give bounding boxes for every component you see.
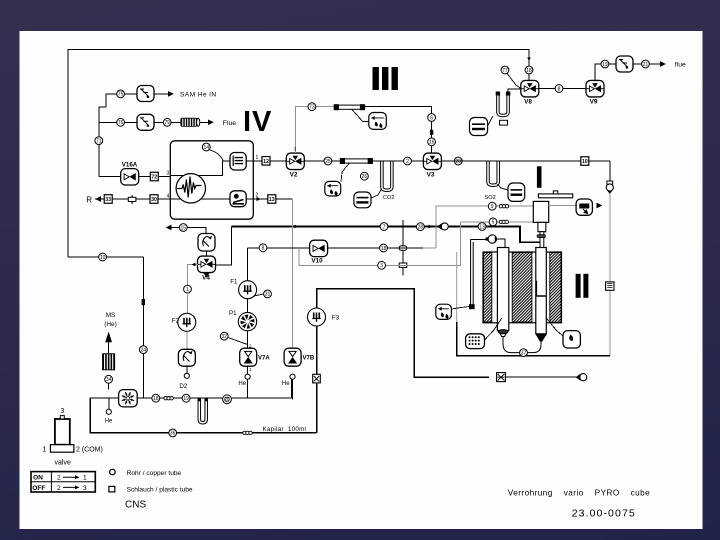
node 31 (264, 290, 272, 298)
svg-text:18: 18 (381, 246, 387, 252)
wire He distribution line (137, 397, 292, 399)
node 15 (179, 224, 187, 232)
wire sample line (232, 226, 540, 242)
wire V4 right link (215, 226, 232, 264)
node 13a (478, 223, 486, 231)
wire He to V7B (291, 379, 293, 398)
node 72 (150, 172, 158, 181)
svg-text:Schlauch / plastic tube: Schlauch / plastic tube (127, 487, 193, 494)
node 13b (268, 195, 276, 204)
wire V10 line end (423, 247, 436, 249)
svg-text:2: 2 (57, 475, 61, 482)
svg-text:79: 79 (164, 120, 170, 126)
wire grill out (246, 160, 286, 162)
svg-text:V8: V8 (524, 99, 532, 106)
tube1 funnel (499, 331, 508, 337)
wire line B riser (459, 222, 461, 265)
svg-text:D2: D2 (179, 383, 187, 390)
svg-text:OFF: OFF (32, 485, 45, 492)
svg-text:V2: V2 (290, 172, 298, 179)
svg-text:73: 73 (309, 105, 315, 111)
node 6 (428, 114, 436, 122)
node 26 (361, 172, 369, 180)
dryer unit (576, 199, 592, 215)
node 1c (184, 285, 192, 293)
svg-text:2 (COM): 2 (COM) (76, 447, 103, 454)
svg-text:Kapilar 100ml: Kapilar 100ml (263, 426, 307, 433)
node 2 (404, 157, 412, 165)
flow arrow flue arrow (208, 119, 214, 125)
svg-text:1: 1 (256, 155, 259, 161)
wire cond link (451, 307, 469, 310)
wire MS to fan (108, 383, 110, 389)
valve V8 (521, 80, 539, 105)
wire F2 stem (187, 293, 189, 313)
flow arrow sample arrow (429, 225, 433, 229)
svg-text:flue: flue (675, 62, 686, 69)
combustion tube 2 inner divider (536, 281, 538, 296)
flow sensor F3 (308, 308, 326, 326)
wire F1 column (247, 248, 249, 376)
wire 32 link (228, 338, 248, 345)
svg-text:13: 13 (269, 197, 275, 203)
wire SO2 tank link (498, 184, 509, 190)
valve legend symbol (50, 416, 74, 453)
svg-text:6: 6 (430, 115, 433, 121)
svg-text:MS: MS (106, 312, 116, 319)
svg-text:R: R (86, 196, 92, 205)
numeral III (373, 67, 379, 90)
node 33 (104, 195, 112, 204)
wire MS stem (108, 342, 110, 353)
wire trap link (508, 89, 521, 93)
svg-text:F3: F3 (332, 315, 340, 322)
flow arrow junction arrow (295, 225, 299, 229)
svg-text:13: 13 (479, 224, 485, 230)
numeral II (576, 274, 581, 298)
svg-text:F1: F1 (230, 278, 238, 285)
node 10a (99, 253, 107, 261)
absorber tank SO2 absorber (508, 183, 525, 201)
node 18b (380, 244, 388, 252)
wire V8 tank link (488, 116, 493, 126)
junction tick (142, 299, 145, 305)
reactor lid (538, 191, 572, 198)
valve V16A (121, 169, 139, 185)
svg-text:IV: IV (243, 106, 272, 138)
svg-text:77: 77 (502, 68, 508, 74)
svg-text:26: 26 (362, 174, 368, 180)
svg-text:33: 33 (105, 197, 111, 203)
He inlet port (106, 409, 111, 414)
wire tube2 drain stub (540, 342, 542, 345)
wire left supply drop (99, 107, 106, 176)
svg-text:2: 2 (57, 485, 61, 492)
svg-text:18: 18 (153, 396, 159, 402)
svg-text:8: 8 (558, 86, 561, 92)
MS arrow (105, 332, 112, 343)
svg-text:21: 21 (643, 62, 649, 68)
flow arrow V4 left arrow (191, 263, 195, 267)
svg-text:SO2: SO2 (485, 195, 496, 201)
svg-text:15: 15 (181, 225, 187, 231)
wire V4-F2 link (188, 265, 198, 286)
ON/OFF table (31, 472, 95, 492)
combustion tube 1 (497, 248, 508, 331)
svg-text:V7A: V7A (258, 356, 270, 362)
wire reactor outlet (549, 205, 576, 207)
flow arrow SAM arrow (168, 91, 174, 97)
wire 14 link (210, 150, 223, 161)
wire right drop (609, 194, 611, 356)
svg-text:75: 75 (118, 92, 124, 98)
gauge 1D gauge b (576, 374, 587, 381)
node 10b (581, 157, 589, 166)
He port V7B (290, 374, 295, 379)
D2 port (184, 373, 189, 378)
svg-text:5: 5 (492, 220, 495, 226)
svg-text:25: 25 (325, 159, 331, 165)
node 5 (489, 218, 497, 226)
svg-text:72: 72 (151, 175, 157, 181)
wire R line (95, 198, 171, 200)
U-tube trap SO2 trap (487, 161, 500, 187)
node 76 (117, 118, 125, 126)
svg-text:20: 20 (455, 159, 461, 165)
flow arrow vent arrow (166, 225, 172, 231)
valve V4 (198, 256, 216, 281)
svg-text:V16A: V16A (122, 162, 138, 169)
node 18a (525, 66, 533, 74)
svg-text:He: He (238, 381, 246, 387)
svg-text:1: 1 (83, 475, 87, 482)
svg-text:10: 10 (582, 159, 588, 165)
wire pump to tube1 (497, 239, 505, 248)
svg-text:30: 30 (151, 197, 157, 203)
wire furnace lower wire (171, 198, 230, 200)
flow arrow flue top arrow (660, 61, 666, 67)
flow arrow R arrow (95, 196, 101, 202)
wire F3 loop (317, 289, 490, 378)
valve V2 (286, 153, 304, 178)
svg-text:4: 4 (167, 193, 170, 199)
svg-text:3: 3 (380, 263, 383, 269)
gauge 1D gauge a (437, 223, 448, 230)
wire top frame to V8 (68, 50, 529, 258)
svg-text:ON: ON (33, 475, 43, 482)
node 37 (520, 349, 528, 357)
node 79 (163, 118, 171, 126)
wire to gauge (505, 376, 576, 378)
flow sensor F2 (178, 313, 196, 331)
tube 2 inner line (536, 281, 546, 296)
node 25 (324, 157, 332, 165)
capillary coil 9 coil (499, 205, 508, 208)
grill element (230, 153, 246, 171)
svg-text:36: 36 (170, 431, 176, 437)
absorber tank CO2 absorber (354, 192, 371, 208)
connector nub (430, 130, 433, 135)
coil flue coil (180, 118, 199, 127)
wire 77 link (507, 74, 521, 89)
heated line mid heated line (340, 158, 373, 164)
node 8b (259, 244, 267, 252)
flow arrow scale out arrow (257, 197, 261, 201)
wire mid heater drain (341, 164, 349, 182)
svg-text:32: 32 (221, 334, 227, 340)
wire V8 top stem (528, 57, 530, 81)
wire V9 flue line (595, 64, 660, 80)
reactor body (533, 201, 548, 222)
svg-text:V9: V9 (590, 99, 598, 106)
svg-text:V10: V10 (311, 258, 323, 265)
wire V16A line (99, 176, 171, 178)
filament sensor (176, 174, 205, 203)
wire line B end (455, 264, 460, 266)
wire flue line (99, 121, 208, 123)
svg-text:12: 12 (263, 159, 269, 165)
node 12 (262, 157, 270, 166)
svg-text:He: He (105, 418, 113, 424)
U-tube trap He trap (198, 398, 208, 424)
valve V9 (586, 80, 604, 105)
junction block (469, 304, 475, 309)
bridge marker (399, 246, 407, 250)
svg-text:P1: P1 (229, 310, 237, 317)
svg-text:9: 9 (491, 204, 494, 210)
svg-text:Rohr / copper tube: Rohr / copper tube (127, 470, 182, 477)
wire 5 line (460, 221, 533, 223)
node 20b (454, 157, 462, 165)
node 9 (488, 202, 496, 210)
wire SAM line (106, 94, 168, 107)
svg-text:He: He (282, 381, 290, 387)
wire main line V3-right (442, 160, 610, 162)
capillary coil 5 coil (499, 220, 508, 223)
node 20a (223, 395, 232, 404)
moisture trap condensate trap left (436, 304, 452, 319)
capillary coil He coil (164, 397, 173, 400)
combustion tube 2 (536, 248, 547, 334)
svg-text:2: 2 (406, 159, 409, 165)
node 71 (95, 137, 103, 145)
node 21 (642, 60, 650, 68)
node 14 (202, 143, 210, 151)
enclosure II bottom (457, 322, 610, 356)
wire F3 to capillary (316, 383, 318, 433)
valve V3 (423, 153, 441, 178)
wire riser to 9 line (436, 206, 533, 248)
filter box (606, 282, 614, 290)
wire tube1 drain stub (502, 337, 504, 345)
wire He inlet stub (108, 398, 110, 409)
wire vent line to regulator (172, 228, 206, 234)
wire trap right link (546, 318, 563, 336)
combustion furnace hatched block (483, 252, 562, 323)
MS coil (102, 353, 115, 370)
node 73 (308, 103, 316, 111)
inline mixer (497, 373, 506, 382)
wire CO2 tank link (371, 189, 382, 198)
condensate trap right (563, 331, 580, 348)
svg-text:37: 37 (521, 350, 527, 356)
reactor taper (538, 222, 546, 231)
arrow tick (527, 58, 531, 62)
transfer tube (471, 239, 474, 304)
legend plastic tube (109, 486, 115, 492)
svg-text:34: 34 (106, 377, 112, 383)
node 18c (152, 394, 160, 402)
node 36 (169, 429, 177, 437)
svg-text:76: 76 (118, 120, 124, 126)
union fitting (128, 195, 136, 204)
wire capillary loop (90, 398, 316, 433)
svg-text:14: 14 (204, 145, 210, 151)
wire F3 lower stem (316, 326, 318, 376)
svg-text:Verrohrung vario PYRO cube: Verrohrung vario PYRO cube (508, 489, 650, 498)
svg-text:10: 10 (100, 255, 106, 261)
wire D2 stub (186, 366, 188, 373)
svg-text:3: 3 (294, 147, 297, 152)
svg-text:1: 1 (249, 367, 252, 372)
U-tube trap V8 trap (496, 92, 511, 117)
wire V7B column (292, 199, 294, 348)
wire 31 link (254, 294, 264, 296)
scale element (230, 191, 246, 207)
wire heater drain link (352, 110, 369, 122)
valve V7B (284, 348, 315, 366)
needle valve SAM needle (137, 86, 154, 102)
flow sensor F1 (239, 281, 257, 299)
node 16 (428, 138, 436, 146)
svg-text:SAM He IN: SAM He IN (180, 92, 217, 99)
absorber tank V8 absorber (470, 118, 488, 136)
flow arrow outlet arrow (597, 203, 603, 209)
svg-text:18: 18 (526, 68, 532, 74)
svg-text:3: 3 (60, 408, 64, 415)
small fitting (500, 120, 508, 125)
svg-text:(He): (He) (104, 321, 116, 328)
furnace unit (170, 141, 253, 219)
pump P1 (238, 312, 256, 330)
svg-text:24: 24 (141, 347, 147, 353)
reactor neck (540, 232, 544, 248)
legend copper tube (110, 469, 116, 475)
capillary coil capillary coil (243, 431, 252, 434)
svg-text:1: 1 (186, 287, 189, 293)
node 32 (220, 332, 228, 340)
V4 drain triangle (203, 273, 210, 278)
svg-text:8: 8 (262, 246, 265, 252)
svg-text:16: 16 (429, 140, 435, 146)
bridge marker (399, 263, 407, 267)
wire scale out (246, 198, 292, 200)
svg-text:19: 19 (183, 396, 189, 402)
wire V2 top branch (295, 107, 337, 153)
wire line B (299, 248, 455, 265)
wire MS column drop (142, 257, 144, 398)
valve V7A (240, 348, 271, 366)
moisture trap mid moisture trap (325, 181, 341, 196)
valve V10 (310, 240, 328, 264)
node 28 (417, 223, 425, 231)
node 24 (139, 346, 147, 354)
wire drop to lamp (609, 161, 611, 181)
svg-text:V7B: V7B (303, 356, 315, 362)
inline filter P3 (313, 374, 321, 383)
wire V7B He drop (292, 379, 294, 399)
wire He line left (90, 397, 119, 399)
catalyst box (466, 334, 485, 349)
wire V10 line (248, 247, 424, 249)
node 3b (378, 261, 386, 269)
svg-text:19: 19 (602, 62, 608, 68)
wire pump left link (471, 238, 488, 240)
svg-text:1: 1 (42, 447, 46, 454)
node 75 (117, 90, 125, 98)
svg-text:2: 2 (256, 193, 259, 199)
He port V7A (245, 374, 250, 379)
svg-text:V3: V3 (427, 172, 435, 179)
wire reg-V4 link (206, 251, 208, 255)
svg-text:Flue: Flue (223, 120, 236, 127)
switching valve fan (119, 390, 138, 407)
node 34 (105, 375, 113, 383)
wire F2 lower stem (186, 331, 188, 349)
wire main line V2-V3 (304, 160, 423, 162)
heated line upper heated line (334, 104, 365, 110)
node 77 (501, 66, 509, 74)
lamp (606, 181, 613, 194)
tube2 funnel (535, 334, 547, 342)
needle valve flue top needle (616, 56, 633, 72)
svg-text:CNS: CNS (125, 500, 146, 511)
washer (537, 235, 545, 238)
wire left frame bottom link (68, 256, 143, 258)
enclosure II (456, 252, 458, 322)
carrier pump (486, 235, 497, 243)
pressure regulator B1 (198, 234, 215, 252)
svg-text:28: 28 (418, 225, 424, 231)
node 30 (150, 195, 158, 204)
node 19a (601, 60, 609, 68)
svg-text:CO2: CO2 (383, 195, 395, 201)
wire V8-V9 line (539, 88, 586, 90)
pressure regulator B2 (178, 349, 195, 366)
svg-text:31: 31 (265, 292, 271, 298)
drain curve (503, 344, 541, 353)
wire bridge column (402, 220, 404, 276)
svg-text:valve: valve (55, 460, 71, 467)
svg-text:3: 3 (167, 171, 170, 177)
needle valve flue needle (137, 114, 154, 130)
svg-text:71: 71 (96, 138, 102, 144)
numeral I (537, 166, 542, 188)
wire to V3 top (363, 107, 432, 153)
wire catalyst link (485, 318, 502, 340)
svg-text:23.00-0075: 23.00-0075 (572, 508, 636, 520)
wire V7A He drop (247, 379, 249, 398)
node 19b (182, 394, 190, 402)
node 8a (555, 85, 563, 93)
svg-text:3: 3 (83, 485, 87, 492)
node 7 (380, 223, 388, 231)
U-tube trap CO2 trap (381, 161, 394, 192)
svg-text:7: 7 (383, 224, 386, 230)
wire furnace step wire (171, 161, 230, 176)
moisture trap upper moisture trap (369, 113, 387, 130)
